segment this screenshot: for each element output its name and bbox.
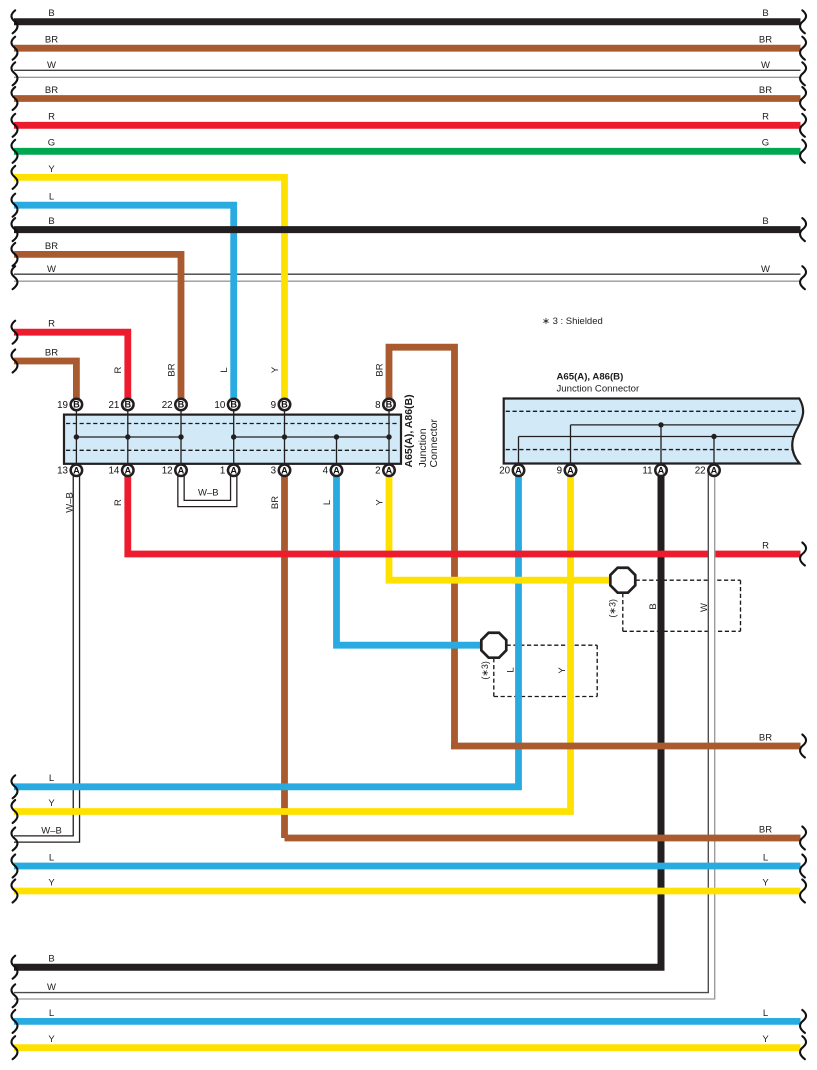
svg-text:A: A bbox=[124, 465, 131, 475]
svg-text:13: 13 bbox=[57, 466, 68, 477]
svg-text:A65(A), A86(B): A65(A), A86(B) bbox=[403, 394, 415, 467]
svg-text:Y: Y bbox=[270, 366, 281, 373]
svg-text:B: B bbox=[281, 400, 288, 410]
svg-text:BR: BR bbox=[759, 35, 772, 46]
svg-text:B: B bbox=[48, 954, 54, 965]
svg-text:W–B: W–B bbox=[41, 825, 62, 836]
svg-text:B: B bbox=[48, 8, 54, 19]
svg-text:A: A bbox=[711, 465, 718, 475]
svg-text:Y: Y bbox=[48, 1034, 55, 1045]
svg-text:L: L bbox=[763, 852, 768, 863]
svg-text:A: A bbox=[230, 465, 237, 475]
svg-text:B: B bbox=[73, 400, 80, 410]
svg-text:W–B: W–B bbox=[198, 487, 219, 498]
svg-text:3: 3 bbox=[271, 466, 277, 477]
svg-text:R: R bbox=[48, 319, 55, 330]
svg-text:R: R bbox=[48, 112, 55, 123]
svg-text:A: A bbox=[386, 465, 393, 475]
svg-text:(∗3): (∗3) bbox=[607, 599, 617, 618]
svg-text:BR: BR bbox=[374, 363, 385, 376]
svg-text:12: 12 bbox=[162, 466, 173, 477]
svg-text:20: 20 bbox=[499, 466, 510, 477]
svg-text:Y: Y bbox=[48, 877, 55, 888]
svg-text:L: L bbox=[49, 852, 54, 863]
svg-text:W: W bbox=[47, 60, 56, 71]
svg-text:2: 2 bbox=[375, 466, 380, 477]
svg-text:9: 9 bbox=[271, 400, 276, 411]
svg-text:Connector: Connector bbox=[428, 419, 440, 468]
svg-text:L: L bbox=[49, 192, 54, 203]
svg-text:10: 10 bbox=[214, 400, 225, 411]
svg-text:Y: Y bbox=[557, 667, 568, 674]
svg-text:G: G bbox=[762, 138, 769, 149]
svg-text:R: R bbox=[113, 499, 124, 506]
svg-text:L: L bbox=[322, 500, 333, 505]
svg-text:21: 21 bbox=[108, 400, 119, 411]
svg-text:B: B bbox=[762, 8, 768, 19]
svg-text:Y: Y bbox=[48, 164, 55, 175]
svg-text:L: L bbox=[763, 1008, 768, 1019]
svg-text:R: R bbox=[762, 540, 769, 551]
svg-text:BR: BR bbox=[759, 85, 772, 96]
svg-text:L: L bbox=[49, 1008, 54, 1019]
svg-text:1: 1 bbox=[220, 466, 225, 477]
svg-text:BR: BR bbox=[45, 347, 58, 358]
svg-text:14: 14 bbox=[108, 466, 119, 477]
svg-text:BR: BR bbox=[45, 35, 58, 46]
svg-text:W: W bbox=[47, 982, 56, 993]
svg-text:Y: Y bbox=[762, 1034, 769, 1045]
svg-text:W: W bbox=[699, 603, 710, 612]
svg-text:A: A bbox=[73, 465, 80, 475]
svg-text:A: A bbox=[178, 465, 185, 475]
svg-text:Y: Y bbox=[374, 499, 385, 506]
svg-text:BR: BR bbox=[45, 85, 58, 96]
svg-text:11: 11 bbox=[642, 466, 652, 477]
svg-text:W: W bbox=[761, 60, 770, 71]
svg-text:W: W bbox=[761, 264, 770, 275]
svg-text:L: L bbox=[219, 367, 230, 372]
svg-text:19: 19 bbox=[57, 400, 68, 411]
svg-text:BR: BR bbox=[759, 824, 772, 835]
svg-text:8: 8 bbox=[375, 400, 381, 411]
svg-text:B: B bbox=[762, 216, 768, 227]
svg-text:A: A bbox=[658, 465, 665, 475]
svg-text:9: 9 bbox=[557, 466, 562, 477]
svg-text:B: B bbox=[48, 216, 54, 227]
svg-text:W: W bbox=[47, 264, 56, 275]
svg-text:R: R bbox=[762, 112, 769, 123]
svg-text:∗ 3 : Shielded: ∗ 3 : Shielded bbox=[542, 316, 603, 327]
svg-text:Junction Connector: Junction Connector bbox=[557, 384, 640, 395]
svg-text:A65(A), A86(B): A65(A), A86(B) bbox=[557, 372, 624, 383]
svg-text:BR: BR bbox=[270, 496, 281, 509]
svg-text:B: B bbox=[648, 603, 659, 609]
svg-text:Y: Y bbox=[762, 877, 769, 888]
svg-text:A: A bbox=[567, 465, 574, 475]
svg-text:22: 22 bbox=[162, 400, 173, 411]
svg-text:B: B bbox=[386, 400, 393, 410]
svg-text:4: 4 bbox=[323, 466, 329, 477]
svg-text:B: B bbox=[178, 400, 185, 410]
svg-text:BR: BR bbox=[759, 732, 772, 743]
svg-text:Y: Y bbox=[48, 798, 55, 809]
svg-text:B: B bbox=[230, 400, 237, 410]
svg-text:W–B: W–B bbox=[64, 492, 75, 513]
svg-text:BR: BR bbox=[166, 363, 177, 376]
svg-text:G: G bbox=[48, 138, 55, 149]
svg-text:A: A bbox=[333, 465, 340, 475]
svg-text:(∗3): (∗3) bbox=[480, 661, 490, 680]
svg-text:A: A bbox=[515, 465, 522, 475]
svg-text:22: 22 bbox=[695, 466, 706, 477]
svg-text:A: A bbox=[281, 465, 288, 475]
svg-text:L: L bbox=[49, 773, 54, 784]
svg-text:BR: BR bbox=[45, 241, 58, 252]
svg-text:B: B bbox=[124, 400, 131, 410]
svg-text:R: R bbox=[113, 366, 124, 373]
svg-text:L: L bbox=[506, 667, 517, 672]
